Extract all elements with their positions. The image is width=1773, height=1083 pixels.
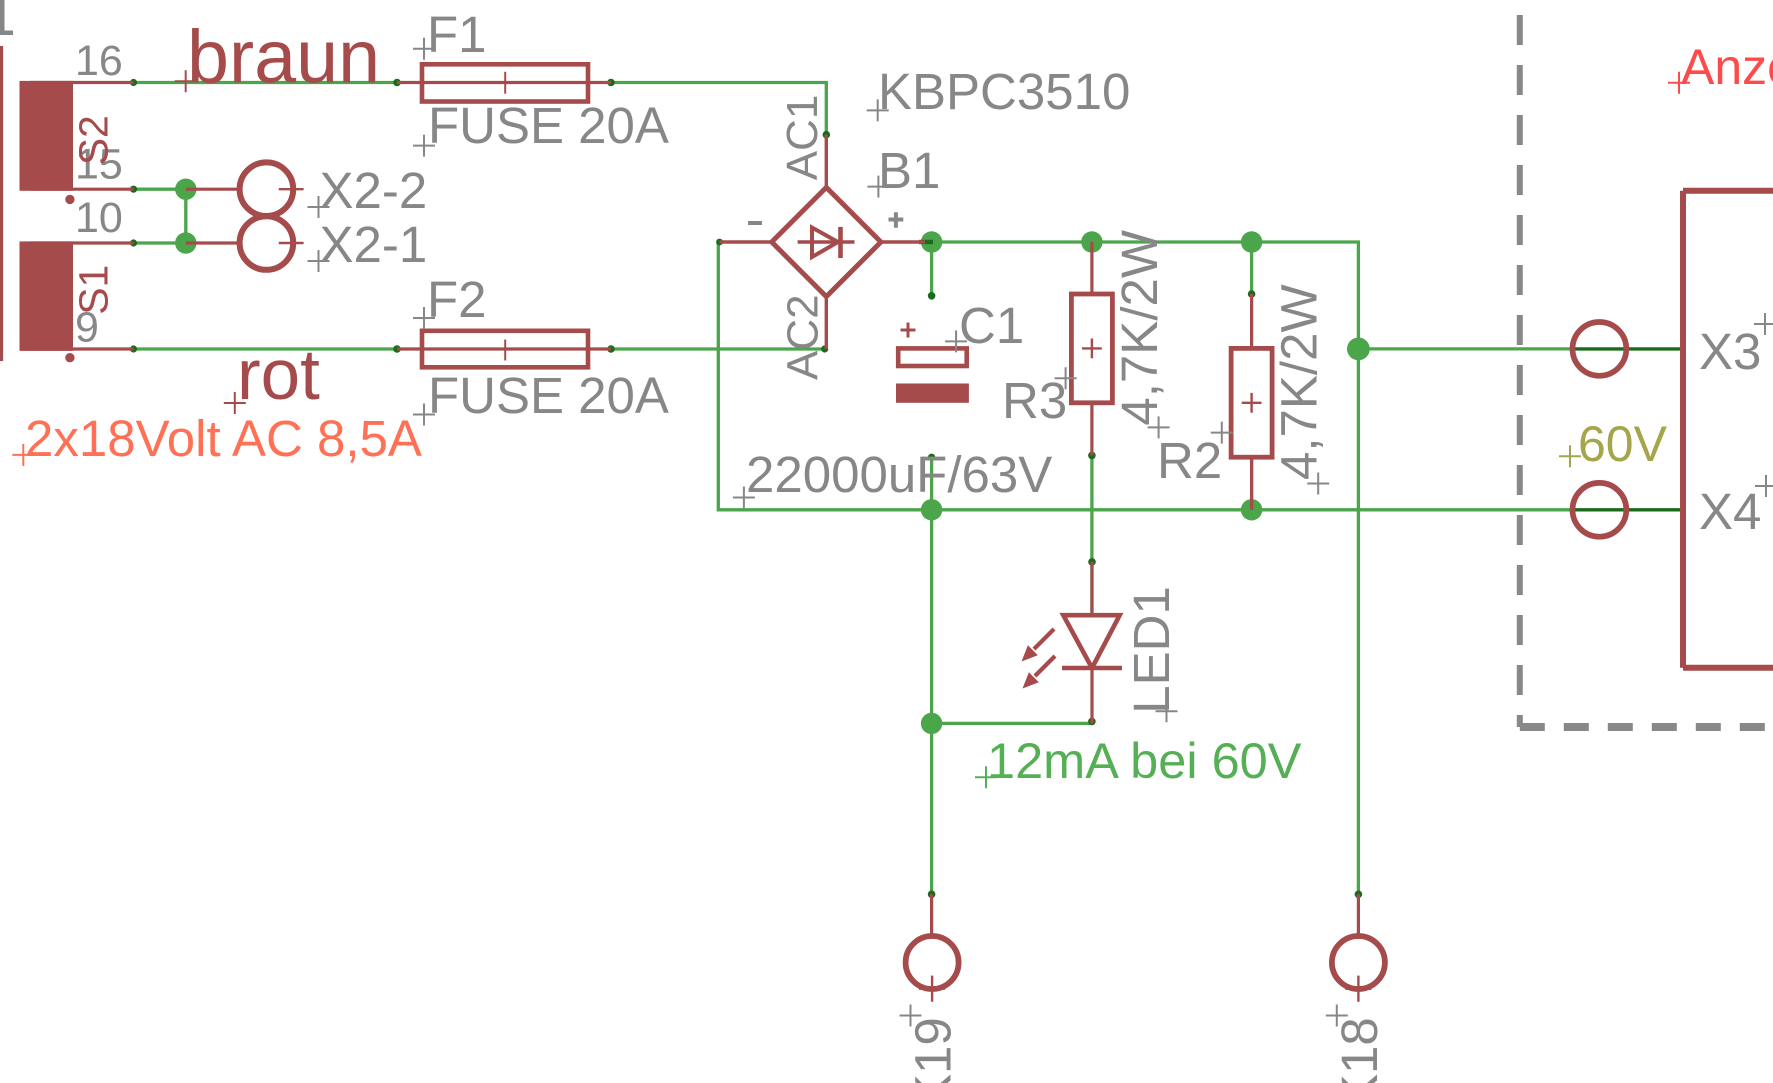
svg-text:FUSE 20A: FUSE 20A xyxy=(428,367,669,424)
svg-text:22000uF/63V: 22000uF/63V xyxy=(746,446,1052,503)
svg-text:AC1: AC1 xyxy=(778,95,827,181)
svg-text:X4: X4 xyxy=(1699,483,1761,540)
svg-text:K19: K19 xyxy=(905,1017,962,1083)
svg-text:KBPC3510: KBPC3510 xyxy=(878,63,1130,120)
svg-text:R3: R3 xyxy=(1002,372,1067,429)
svg-text:rot: rot xyxy=(237,336,320,415)
svg-text:X2-1: X2-1 xyxy=(320,216,428,273)
svg-text:LED1: LED1 xyxy=(1123,586,1180,714)
svg-text:FUSE 20A: FUSE 20A xyxy=(428,97,669,154)
svg-text:2x18Volt AC 8,5A: 2x18Volt AC 8,5A xyxy=(25,410,422,467)
svg-text:S1: S1 xyxy=(71,265,117,315)
svg-text:4,7K/2W: 4,7K/2W xyxy=(1271,284,1328,480)
svg-text:C1: C1 xyxy=(959,297,1024,354)
svg-text:60V: 60V xyxy=(1578,416,1668,472)
svg-text:R2: R2 xyxy=(1157,432,1222,489)
svg-text:AC2: AC2 xyxy=(779,294,828,380)
svg-text:S2: S2 xyxy=(71,115,117,165)
svg-text:F1: F1 xyxy=(427,6,487,63)
svg-text:K18: K18 xyxy=(1331,1017,1388,1083)
svg-text:X2-2: X2-2 xyxy=(320,162,428,219)
svg-text:Anzeige: Anzeige xyxy=(1681,39,1773,95)
svg-text:braun: braun xyxy=(187,15,380,99)
svg-text:X3: X3 xyxy=(1699,323,1761,380)
svg-text:4,7K/2W: 4,7K/2W xyxy=(1111,230,1168,426)
svg-text:B1: B1 xyxy=(878,142,940,199)
svg-text:16: 16 xyxy=(75,37,123,85)
svg-text:12mA bei 60V: 12mA bei 60V xyxy=(987,732,1302,789)
svg-text:10: 10 xyxy=(75,194,123,242)
svg-text:F2: F2 xyxy=(427,271,487,328)
